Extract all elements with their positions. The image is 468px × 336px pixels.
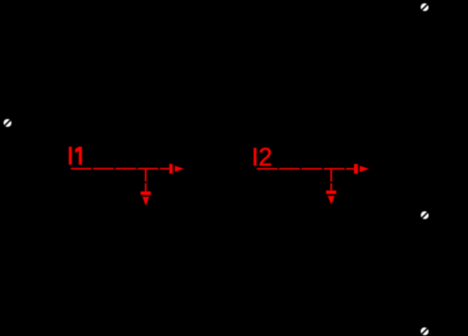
current arrow I1 horizontal dashed line [71, 168, 169, 170]
port/terminal P3 (middle right) [421, 211, 429, 219]
current arrow I2 down tip triangle [328, 196, 335, 205]
current arrow I2 horizontal dashed line [257, 168, 354, 170]
current arrow I2 vertical dashed branch [330, 170, 332, 191]
port/terminal P4 (bottom right) [421, 327, 429, 335]
wire: input lead from left port [11, 122, 68, 124]
port/terminal P1 (left input) [4, 119, 12, 127]
wire: mid-right port lead [423, 170, 425, 211]
wire: bottom-right port lead [423, 290, 425, 327]
svg-text:I2: I2 [252, 144, 273, 171]
current arrow I1 down tip bar [141, 191, 151, 195]
current arrow I1 right tip triangle [175, 166, 184, 172]
current arrow I1 label [69, 147, 82, 165]
current arrow I1 right tip bar [169, 164, 172, 174]
current arrow I2 right tip triangle [360, 166, 369, 172]
current arrow I1 down tip triangle [142, 197, 149, 206]
current arrow I2 down tip bar [326, 191, 336, 195]
wire: top-right port lead [423, 11, 425, 60]
port/terminal P2 (top right) [421, 3, 429, 11]
current arrow I2 right tip bar [354, 164, 358, 174]
current arrow I1 vertical dashed branch [145, 170, 147, 192]
